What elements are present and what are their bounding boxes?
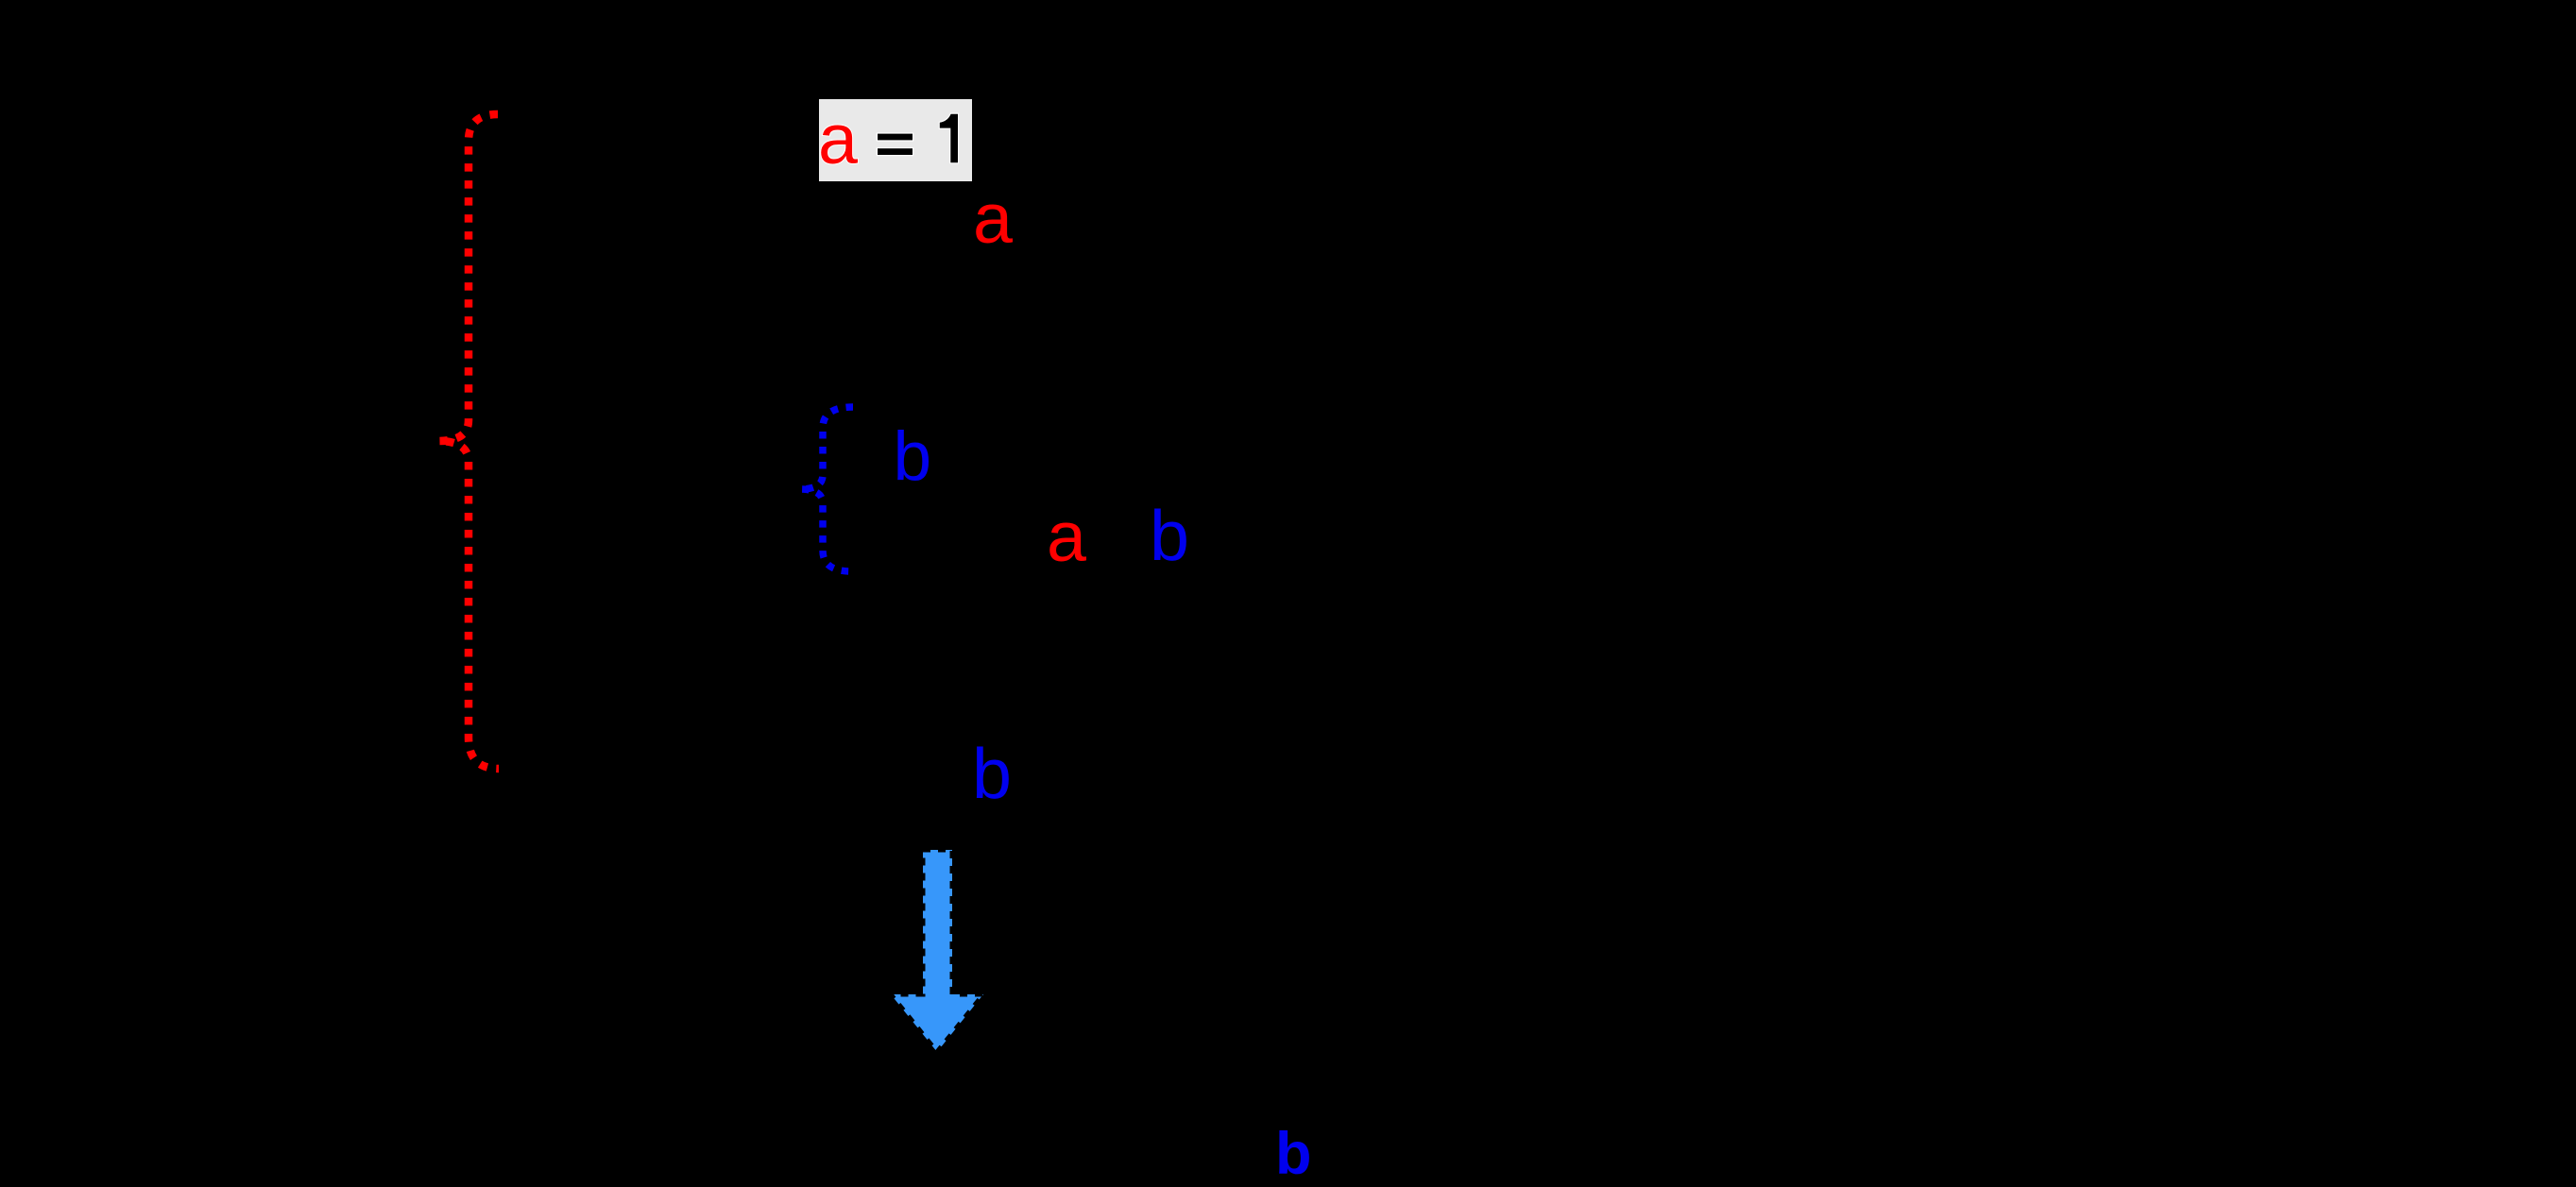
svg-text:b: b xyxy=(1275,1121,1311,1187)
svg-text:a: a xyxy=(1047,497,1086,576)
red dashed curly brace (left, spans derivation) xyxy=(438,114,499,769)
svg-text:b: b xyxy=(894,418,932,495)
svg-text:b: b xyxy=(1150,496,1189,575)
highlight box "a = 1" xyxy=(819,99,972,181)
value 1 (black, inside box) xyxy=(940,114,958,163)
big light-blue dashed arrow (downward) xyxy=(891,850,983,1052)
equals sign (black, inside box) xyxy=(878,134,913,155)
blue dashed curly brace (small) xyxy=(800,407,853,571)
svg-text:b: b xyxy=(972,734,1012,813)
svg-text:a: a xyxy=(818,99,858,178)
svg-text:a: a xyxy=(973,178,1013,258)
